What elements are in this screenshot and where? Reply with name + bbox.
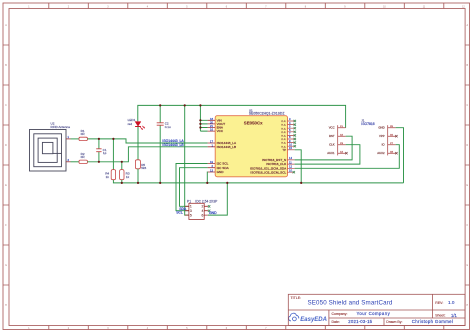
U1 n.c. no-connect X marks (293, 120, 296, 174)
svg-text:2: 2 (202, 205, 204, 209)
svg-text:1/1: 1/1 (451, 313, 457, 318)
wire U1 GND to bus (206, 172, 208, 183)
svg-text:0R: 0R (81, 132, 86, 136)
junction P1 GND bus (226, 182, 228, 184)
svg-text:GND: GND (209, 211, 217, 215)
svg-text:21: 21 (210, 124, 213, 128)
svg-text:3: 3 (190, 209, 192, 213)
svg-text:4: 4 (147, 6, 149, 8)
svg-text:5: 5 (190, 213, 192, 217)
svg-text:Date:: Date: (332, 320, 340, 324)
svg-text:6: 6 (289, 128, 291, 132)
svg-text:7: 7 (265, 6, 267, 8)
svg-text:AUX1: AUX1 (327, 151, 335, 155)
svg-text:0.1u: 0.1u (165, 125, 171, 129)
svg-text:H: H (466, 305, 468, 307)
resistor R4 (112, 139, 114, 170)
junction U1 GND (206, 182, 208, 184)
svg-text:red: red (128, 122, 133, 126)
svg-text:A: A (5, 24, 7, 27)
svg-text:B: B (5, 65, 7, 67)
svg-text:6: 6 (202, 213, 204, 217)
svg-text:GND: GND (217, 170, 225, 174)
svg-text:8: 8 (289, 135, 291, 139)
svg-text:ISO7816: ISO7816 (361, 122, 374, 126)
title block (288, 294, 465, 325)
EasyEDA logo (289, 313, 299, 321)
svg-text:C: C (5, 105, 7, 107)
U1 left pin names (217, 118, 237, 174)
junction R3 bottom (121, 182, 123, 184)
wire TP to GND bus (295, 150, 302, 183)
svg-text:11: 11 (289, 160, 292, 164)
svg-text:GND: GND (378, 126, 384, 130)
svg-text:5k6: 5k6 (141, 166, 146, 170)
U1 right n.c. pins (287, 121, 294, 172)
svg-text:VCC: VCC (329, 126, 335, 130)
svg-text:1k: 1k (106, 175, 110, 179)
svg-text:3: 3 (289, 117, 291, 121)
svg-text:14: 14 (289, 156, 292, 160)
svg-text:1.0: 1.0 (448, 300, 455, 305)
svg-text:4: 4 (289, 121, 291, 125)
svg-text:G: G (466, 265, 468, 267)
svg-text:E: E (467, 185, 469, 187)
svg-text:A: A (467, 24, 469, 27)
wire U1 IO1 to J1 C7 (295, 145, 400, 169)
svg-text:0R: 0R (81, 155, 86, 159)
svg-text:8: 8 (305, 6, 307, 8)
resistor R2 (79, 160, 87, 163)
wire I2C SCL to P1 pin3 (176, 164, 208, 211)
wire VCC rail (138, 105, 346, 127)
svg-text:6: 6 (226, 6, 228, 8)
J1 left contacts C1-C4 (338, 125, 346, 155)
svg-text:Sheet:: Sheet: (435, 314, 445, 318)
junction ENA (199, 126, 201, 128)
wire LED cathode to R5 (137, 127, 139, 160)
junction R5 bottom (137, 182, 139, 184)
svg-text:Company:: Company: (332, 312, 348, 316)
svg-text:12: 12 (462, 6, 465, 8)
svg-text:E: E (5, 185, 7, 187)
svg-text:RST: RST (329, 134, 335, 138)
svg-text:4: 4 (202, 209, 204, 213)
svg-text:D: D (466, 145, 468, 147)
svg-text:7: 7 (289, 132, 291, 136)
wire antenna pin2 to R2 (71, 161, 80, 163)
capacitor C1 (98, 139, 100, 149)
svg-text:5: 5 (289, 124, 291, 128)
svg-text:2: 2 (68, 6, 70, 8)
junction VIN (199, 119, 201, 121)
svg-text:10: 10 (289, 168, 292, 172)
svg-text:ISO7816_IO2_I2CM_SCL: ISO7816_IO2_I2CM_SCL (250, 170, 286, 174)
capacitor C2 (159, 105, 161, 122)
svg-text:SE050 Shield and SmartCard: SE050 Shield and SmartCard (307, 300, 392, 307)
svg-text:17: 17 (210, 140, 213, 144)
svg-text:G: G (5, 265, 7, 267)
J1 C8 no-connect X (395, 152, 397, 154)
svg-text:EasyEDA: EasyEDA (300, 317, 327, 323)
svg-text:IO: IO (382, 143, 386, 147)
IC U1 SE050Cx body (215, 116, 287, 177)
svg-text:AUX2: AUX2 (377, 151, 385, 155)
wire U1 CLK to J1 C3 (295, 145, 360, 164)
wire P1 pin6 to GND bus (208, 183, 227, 215)
junction R4 top (112, 138, 114, 140)
wire net ISO14443_LA (87, 139, 207, 143)
svg-text:10: 10 (383, 6, 386, 8)
junction TP GND (300, 182, 302, 184)
svg-text:F: F (467, 225, 469, 227)
junction VCC rail U1 (199, 104, 201, 106)
svg-text:IDC 2.54 2X3P: IDC 2.54 2X3P (195, 200, 218, 204)
svg-text:19: 19 (210, 160, 213, 164)
antenna U2 (30, 130, 67, 172)
svg-text:Your Company: Your Company (357, 311, 391, 316)
wire VCC to U1 supply pins (199, 105, 201, 131)
junction C2 bottom (159, 182, 161, 184)
connector P1 IDC 2.54 2X3P (189, 203, 204, 219)
wire VCC to P1 pin5 (185, 105, 189, 215)
junction VCC rail P1 (184, 104, 186, 106)
svg-text:ISO14443_LB: ISO14443_LB (217, 145, 236, 149)
resistor R5 (135, 160, 140, 169)
svg-text:VCC: VCC (217, 129, 224, 133)
svg-text:Drawn By:: Drawn By: (386, 320, 402, 324)
wire net ISO14443_LB (87, 147, 207, 162)
U1 left pin stubs (208, 120, 215, 172)
svg-text:F: F (5, 225, 7, 227)
svg-text:5: 5 (186, 6, 188, 8)
svg-text:H: H (5, 305, 7, 307)
svg-text:C: C (466, 105, 468, 107)
svg-text:1: 1 (28, 6, 30, 8)
svg-text:13: 13 (210, 169, 213, 173)
svg-text:12: 12 (289, 165, 292, 169)
J1 right contacts C5-C8 (388, 125, 396, 155)
svg-text:15: 15 (289, 146, 292, 150)
svg-text:B: B (467, 65, 469, 67)
svg-text:REV:: REV: (435, 301, 443, 305)
wire J1 C5 to GND bus (396, 128, 404, 183)
svg-text:ISO14443_LB: ISO14443_LB (162, 143, 184, 147)
P1 pin4 no-connect X (208, 210, 210, 212)
svg-text:RFID Antenna: RFID Antenna (51, 125, 71, 129)
wire U1 RST to J1 C2 (295, 136, 353, 160)
wire I2C SDA to P1 pin1 (180, 168, 208, 207)
resistor R1 (79, 137, 87, 140)
LED LED1 (135, 122, 141, 127)
svg-text:11: 11 (423, 6, 426, 8)
svg-text:1k: 1k (126, 175, 130, 179)
svg-text:18: 18 (210, 117, 213, 121)
wire GND bus (113, 180, 403, 183)
svg-text:10: 10 (289, 142, 292, 146)
junction C1 top (98, 138, 100, 140)
svg-text:16: 16 (210, 128, 213, 132)
svg-text:9: 9 (344, 6, 346, 8)
svg-text:1: 1 (190, 205, 192, 209)
P1 pin2 no-connect X (208, 205, 210, 207)
resistor R3 (121, 162, 123, 170)
U1 left pin numbers (210, 117, 214, 173)
svg-text:D: D (5, 145, 7, 147)
J1 C6 no-connect X (395, 135, 397, 137)
junction R3 top (121, 161, 123, 163)
svg-text:9: 9 (289, 139, 291, 143)
svg-text:P1: P1 (187, 200, 191, 204)
J1 C4 no-connect X (345, 152, 347, 154)
junction VOUT (199, 123, 201, 125)
svg-text:3: 3 (107, 6, 109, 8)
svg-text:TP: TP (282, 148, 286, 152)
svg-text:2021-03-15: 2021-03-15 (348, 319, 372, 324)
svg-text:1p: 1p (103, 151, 107, 155)
U1 right pin numbers (289, 117, 292, 172)
svg-text:VPP: VPP (379, 134, 385, 138)
svg-text:SCL: SCL (176, 211, 183, 215)
junction C2 top (159, 104, 161, 106)
junction C1 bottom (98, 161, 100, 163)
wire antenna pin1 to R1 (71, 138, 80, 140)
svg-text:Christoph Gommel: Christoph Gommel (412, 319, 453, 324)
svg-text:TITLE:: TITLE: (291, 296, 302, 300)
svg-text:SE050C2HQ1-Z01SDZ: SE050C2HQ1-Z01SDZ (249, 112, 285, 116)
svg-text:20: 20 (210, 120, 213, 124)
svg-text:CLK: CLK (329, 143, 335, 147)
svg-text:SE050Cx: SE050Cx (244, 120, 263, 125)
